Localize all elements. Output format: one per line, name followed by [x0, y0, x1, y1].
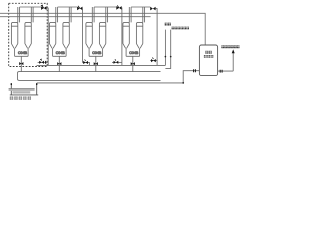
pit walls: [10, 83, 38, 95]
lower header pipe: [0, 16, 151, 18]
valve V2 top: [77, 7, 82, 11]
riser pipe B1: [56, 7, 58, 23]
dust valve group2 center: [57, 62, 61, 65]
bridge line group2: [58, 6, 78, 8]
label exhaust: [165, 23, 171, 26]
svg-text:C04B: C04B: [92, 51, 102, 55]
valve outlet down group2: [82, 8, 84, 62]
valve outlet down group3: [121, 8, 123, 63]
vessel B1: [49, 22, 55, 56]
junction dot slurry: [182, 82, 184, 84]
bridge line group4: [131, 6, 150, 8]
tank outlet right: [218, 51, 234, 71]
svg-text:C04B: C04B: [56, 51, 66, 55]
exhaust downpipe right: [165, 30, 170, 69]
merge line group1: [15, 56, 29, 71]
vessel D1: [123, 22, 129, 56]
branch valve group3: [112, 61, 122, 63]
merge line group4: [126, 56, 140, 71]
pit label: [10, 97, 31, 100]
riser pipe A1: [18, 7, 20, 23]
valve V4 top: [150, 7, 155, 11]
valve V1 top: [41, 6, 46, 10]
dust valve group1 center: [19, 62, 23, 65]
vessel B2: [63, 22, 69, 56]
vessel D2: [136, 22, 142, 56]
branch valve group1: [38, 61, 49, 63]
upper header pipe: [0, 13, 205, 45]
branch valve group4: [150, 13, 157, 65]
svg-text:C04B: C04B: [18, 51, 28, 55]
vessel C2: [99, 22, 105, 56]
pump ticks right of tank: [220, 70, 222, 73]
branch valve group2: [82, 62, 89, 65]
merge line group2: [53, 56, 67, 71]
svg-text:C04B: C04B: [129, 51, 139, 55]
riser pipe A2: [31, 7, 33, 23]
valve V3 top: [116, 6, 121, 10]
junction dot 1: [165, 56, 167, 58]
merge line group3: [89, 56, 103, 71]
vessel C1: [86, 22, 92, 56]
riser pipe C2: [106, 7, 108, 23]
conveyor duct: [18, 72, 161, 81]
bridge line group3: [94, 6, 116, 8]
label to-dust-collector: [172, 27, 189, 30]
riser pipe D1: [129, 7, 131, 23]
dust valve group3 center: [94, 62, 98, 65]
valve outlet down group1: [47, 8, 49, 62]
pit contents: [9, 89, 35, 91]
tank label: [205, 51, 212, 54]
riser pipe D2: [143, 7, 145, 23]
vessel A2: [25, 22, 31, 56]
arrow up: [232, 49, 235, 53]
dust valve group4 center: [131, 62, 135, 65]
label top right: [221, 45, 239, 48]
dust collection line L1: [37, 64, 166, 66]
exhaust downpipe left: [164, 30, 166, 66]
tank box: [199, 45, 217, 76]
riser pipe B2: [69, 7, 71, 23]
riser pipe C1: [92, 7, 94, 23]
pump ticks left of tank: [194, 69, 196, 72]
dashed enclosure box: [9, 3, 48, 66]
slurry line to tank: [37, 71, 200, 83]
vessel A1: [11, 22, 17, 56]
junction dot 2: [170, 56, 172, 58]
valve outlet group4: [156, 9, 158, 14]
bridge line group1: [20, 6, 41, 8]
